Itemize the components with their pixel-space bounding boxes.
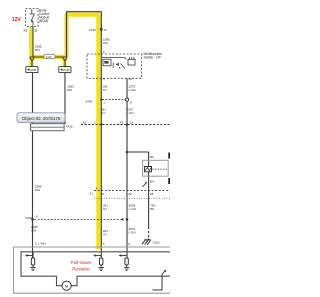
svg-text:X340: X340 <box>89 28 96 32</box>
svg-text:40: 40 <box>101 192 105 196</box>
svg-text:L-GN: L-GN <box>128 231 135 235</box>
svg-text:X3: X3 <box>119 120 123 124</box>
svg-text:C 1 WH: C 1 WH <box>35 241 46 245</box>
svg-text:X240: X240 <box>85 99 92 103</box>
svg-text:GY: GY <box>103 88 107 92</box>
svg-text:28: 28 <box>150 192 154 196</box>
svg-text:WH: WH <box>35 188 40 192</box>
svg-text:X415: X415 <box>66 124 73 128</box>
svg-text:(BCM): (BCM) <box>39 19 48 23</box>
svg-text:GY: GY <box>103 232 107 236</box>
svg-text:BK: BK <box>150 207 154 211</box>
svg-text:30: 30 <box>128 192 132 196</box>
svg-text:12V: 12V <box>12 17 22 23</box>
svg-text:G202: G202 <box>153 241 160 245</box>
svg-text:Object ID: 2078176: Object ID: 2078176 <box>22 116 61 121</box>
svg-text:44: 44 <box>103 28 107 32</box>
svg-text:Pull-down: Pull-down <box>70 260 91 266</box>
svg-text:WH: WH <box>31 228 36 232</box>
svg-text:L-GN: L-GN <box>126 111 133 115</box>
svg-text:B4: B4 <box>150 179 154 183</box>
svg-text:X205: X205 <box>46 55 53 59</box>
svg-text:GY: GY <box>103 207 107 211</box>
svg-text:12: 12 <box>129 77 133 81</box>
svg-text:M: M <box>65 284 68 289</box>
svg-text:L-GN: L-GN <box>129 88 136 92</box>
svg-text:X1: X1 <box>89 192 93 196</box>
svg-text:L-GN: L-GN <box>129 207 136 211</box>
svg-text:GY: GY <box>101 111 105 115</box>
svg-text:11: 11 <box>130 120 133 124</box>
svg-text:Switch - UP: Switch - UP <box>144 56 162 60</box>
svg-text:B2: B2 <box>150 155 154 159</box>
svg-text:WH: WH <box>103 41 108 45</box>
svg-text:WH: WH <box>67 88 72 92</box>
svg-text:X2: X2 <box>83 120 87 124</box>
svg-text:11: 11 <box>34 29 38 33</box>
svg-text:3AM: 3AM <box>30 68 37 72</box>
svg-text:Resistor: Resistor <box>72 267 90 273</box>
svg-text:X3: X3 <box>23 29 27 33</box>
svg-text:2AM: 2AM <box>63 68 70 72</box>
svg-text:WH: WH <box>35 48 40 52</box>
